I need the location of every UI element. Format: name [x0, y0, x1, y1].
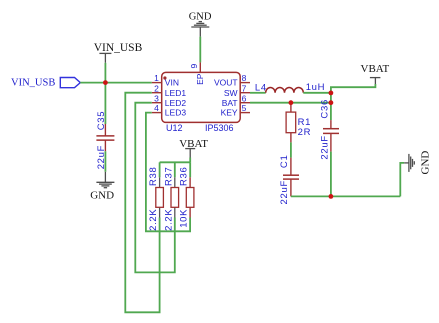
svg-text:BAT: BAT [222, 98, 238, 108]
net label VBAT mid [179, 138, 208, 158]
wire pin7 to inductor [250, 92, 266, 94]
svg-text:22uF: 22uF [279, 180, 290, 204]
inductor L4 [255, 82, 325, 93]
capacitor C1 [279, 155, 299, 205]
svg-text:LED3: LED3 [165, 108, 187, 118]
wire pin3 LED2 route [135, 103, 175, 273]
pin 1 VIN [152, 73, 179, 88]
pin 3 LED2 [152, 93, 187, 108]
svg-text:9: 9 [189, 64, 199, 69]
svg-text:GND: GND [420, 151, 432, 175]
wire R1 to C1 [290, 142, 292, 157]
svg-text:4: 4 [154, 103, 159, 113]
net label VBAT top right [361, 63, 390, 84]
ground top [189, 11, 212, 36]
wire pin6 BAT row [250, 102, 331, 104]
svg-text:3: 3 [154, 93, 159, 103]
pin 8 VOUT [214, 73, 250, 88]
svg-text:6: 6 [242, 93, 247, 103]
svg-text:VOUT: VOUT [214, 78, 238, 88]
wire C36 top [330, 103, 332, 120]
svg-text:LED2: LED2 [165, 98, 187, 108]
svg-text:R36: R36 [179, 166, 190, 186]
svg-text:IP5306: IP5306 [205, 123, 234, 133]
ground left [90, 172, 114, 202]
IC U12 IP5306 body [162, 72, 241, 133]
pin 4 LED3 [152, 103, 187, 118]
svg-text:VIN: VIN [165, 78, 179, 88]
svg-text:L4: L4 [255, 82, 267, 93]
svg-text:5: 5 [242, 103, 247, 113]
wire ground rail bottom [291, 195, 400, 197]
svg-text:VBAT: VBAT [361, 63, 390, 75]
port VIN_USB [11, 78, 80, 89]
capacitor C36 [319, 99, 339, 160]
capacitor C35 [96, 111, 115, 170]
svg-text:VIN_USB: VIN_USB [94, 42, 143, 54]
svg-text:2: 2 [154, 83, 159, 93]
pin 2 LED1 [152, 83, 187, 98]
svg-text:22uF: 22uF [319, 135, 330, 159]
svg-text:1uH: 1uH [306, 82, 326, 93]
resistor R37 [163, 166, 178, 230]
wire ground to pin9 [199, 37, 201, 63]
wire C36 bottom [330, 152, 332, 197]
wire VBAT rail to resistors [160, 158, 191, 178]
svg-text:R38: R38 [148, 166, 159, 186]
svg-text:GND: GND [189, 11, 212, 22]
svg-text:VIN_USB: VIN_USB [11, 78, 55, 89]
wire rail to right ground [400, 163, 404, 197]
pin 7 SW [224, 83, 250, 98]
resistor R38 [148, 166, 163, 230]
svg-text:SW: SW [224, 88, 238, 98]
node junction VIN_USB [103, 80, 108, 85]
wire inductor to node [303, 92, 331, 94]
wire node to VBAT top right [331, 84, 376, 103]
svg-text:2.2K: 2.2K [163, 209, 174, 231]
svg-text:2.2K: 2.2K [148, 209, 159, 231]
svg-text:C35: C35 [96, 111, 107, 131]
wire VIN_USB vertical [104, 63, 106, 124]
svg-text:10K: 10K [179, 209, 190, 228]
svg-text:7: 7 [242, 83, 247, 93]
svg-text:1: 1 [154, 73, 159, 83]
svg-text:EP: EP [195, 73, 205, 85]
net label VIN_USB [94, 42, 143, 63]
svg-text:R37: R37 [163, 166, 174, 186]
pin 9 EP [189, 62, 205, 85]
node BAT junction at C36 [329, 100, 334, 105]
pin 5 KEY [221, 103, 250, 118]
wire pin4 LED3 route [146, 113, 190, 232]
svg-text:GND: GND [90, 189, 114, 201]
wire pin2 LED1 route [125, 93, 159, 313]
wire C35 to ground [104, 151, 106, 172]
resistor R1 [286, 103, 311, 143]
wire port to pin1 [80, 82, 152, 84]
svg-text:8: 8 [242, 73, 247, 83]
svg-text:LED1: LED1 [165, 88, 187, 98]
svg-text:KEY: KEY [221, 108, 238, 118]
node SW junction [329, 91, 334, 96]
svg-text:2R: 2R [298, 127, 312, 138]
svg-text:C1: C1 [279, 155, 290, 169]
node rail junction [329, 194, 334, 199]
pin 6 BAT [222, 93, 250, 108]
svg-text:U12: U12 [166, 123, 183, 133]
resistor R36 [179, 166, 194, 227]
node BAT junction at R1 [289, 100, 294, 105]
ground right [404, 151, 431, 175]
